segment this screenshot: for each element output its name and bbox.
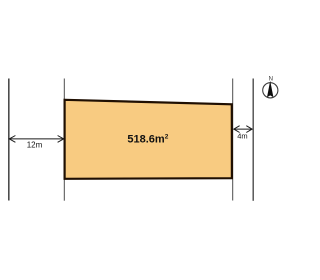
road edge line right outer [252, 79, 254, 201]
land parcel 518.6m2 [65, 100, 232, 179]
road edge line left inner [63, 79, 65, 201]
dimension arrow 12m road width [9, 136, 63, 143]
road edge line right inner [232, 79, 234, 201]
road edge line left outer [8, 79, 10, 201]
compass circle [263, 83, 278, 98]
svg-text:12m: 12m [27, 140, 43, 149]
compass needle [267, 81, 273, 98]
dimension arrow 4m road width [234, 126, 252, 133]
svg-text:4m: 4m [237, 132, 247, 141]
svg-text:N: N [269, 76, 273, 82]
svg-text:518.6m2: 518.6m2 [127, 134, 168, 146]
